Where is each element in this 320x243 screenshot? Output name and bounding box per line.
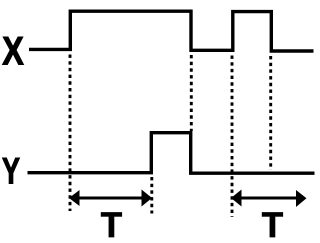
wire: Y waveform trace — [28, 133, 315, 174]
dimension arrow T (first period) — [69, 190, 152, 207]
svg-text:T: T — [262, 206, 283, 243]
svg-text:Y: Y — [2, 150, 20, 191]
dimension arrow T (second period) — [231, 190, 307, 208]
svg-text:T: T — [101, 206, 122, 243]
node t5 dotted line (X 2nd falling edge) — [269, 56, 272, 170]
node t1 dotted line (X rising edge) — [69, 55, 72, 212]
wire: X waveform trace — [29, 11, 314, 51]
node t3 dotted line (X falling edge) — [190, 55, 193, 131]
svg-text:X: X — [2, 29, 24, 73]
node t2 dotted line (Y rising edge) — [150, 177, 153, 214]
node t4 dotted line (X 2nd rising edge) — [231, 56, 234, 218]
